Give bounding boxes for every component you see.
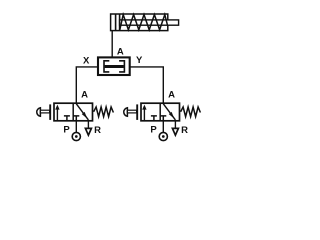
box divider: [72, 103, 74, 121]
exhaust triangle: [85, 128, 91, 135]
valve body: [54, 103, 93, 121]
pressure source: [72, 132, 80, 140]
svg-text:Y: Y: [136, 55, 143, 66]
left box blocked port T: [64, 116, 70, 121]
push button cap: [37, 108, 41, 117]
svg-text:A: A: [117, 46, 124, 57]
R port stub: [87, 121, 89, 129]
wire Y to valve 1S2: [130, 67, 164, 104]
cylinder return spring: [120, 15, 168, 30]
right box blocked port T: [73, 116, 79, 121]
svg-text:A: A: [81, 90, 88, 101]
left box flow arrow: [56, 108, 58, 120]
3/2 valve 1S2 (push button, spring return): [124, 90, 201, 141]
3/2 valve 1S1 (push button, spring return): [37, 90, 114, 141]
cylinder piston rod: [120, 20, 179, 25]
svg-text:X: X: [83, 55, 90, 66]
shuttle bar: [105, 65, 124, 68]
svg-text:R: R: [94, 125, 101, 136]
shuttle right seat: [119, 60, 124, 73]
push button plate: [49, 104, 51, 120]
right box A-R diagonal: [76, 104, 88, 120]
wire X to valve 1S1: [76, 67, 98, 104]
shuttle left seat: [104, 60, 109, 73]
cylinder piston: [115, 14, 117, 31]
two-pressure valve body: [98, 57, 130, 75]
P port stub: [75, 121, 77, 133]
return spring: [94, 107, 114, 117]
push button stem: [40, 110, 49, 113]
wire cylinder port to shuttle valve A: [111, 31, 113, 58]
cylinder 1A body: [111, 14, 168, 31]
svg-text:P: P: [63, 124, 70, 135]
